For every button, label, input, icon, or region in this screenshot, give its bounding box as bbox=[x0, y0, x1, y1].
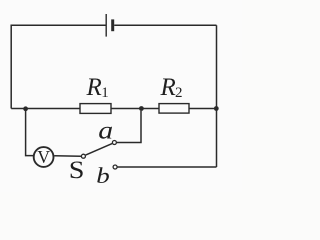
svg-text:a: a bbox=[98, 118, 113, 145]
svg-text:2: 2 bbox=[175, 85, 183, 101]
contact a bbox=[112, 141, 116, 145]
wire R2 to right bbox=[189, 108, 217, 110]
voltmeter V bbox=[34, 147, 54, 167]
wire top-left horizontal bbox=[11, 25, 105, 108]
node junction right bbox=[214, 106, 219, 111]
battery B1 short thick plate bbox=[111, 19, 114, 31]
node junction left bbox=[23, 106, 28, 111]
svg-text:b: b bbox=[96, 163, 110, 188]
node junction mid bbox=[139, 106, 144, 111]
wire contact b to right bbox=[118, 166, 217, 168]
svg-text:V: V bbox=[37, 147, 50, 167]
svg-text:R: R bbox=[160, 74, 176, 101]
contact b bbox=[113, 165, 117, 169]
wire contact a to node bbox=[117, 111, 141, 143]
resistor R1 bbox=[80, 104, 111, 114]
wire middle-left horizontal bbox=[11, 108, 80, 110]
wire top-right horizontal bbox=[114, 24, 216, 26]
wire voltmeter to switch bbox=[54, 155, 81, 157]
switch S lever bbox=[86, 144, 113, 156]
switch S pivot bbox=[81, 154, 85, 158]
wire voltmeter branch bbox=[26, 109, 33, 156]
svg-text:1: 1 bbox=[101, 85, 109, 101]
svg-text:S: S bbox=[69, 157, 85, 184]
wire R1 to node bbox=[111, 108, 159, 110]
wire right vertical bbox=[216, 25, 218, 167]
svg-text:R: R bbox=[86, 74, 102, 101]
resistor R2 bbox=[159, 104, 189, 114]
battery B1 long plate bbox=[105, 14, 107, 37]
